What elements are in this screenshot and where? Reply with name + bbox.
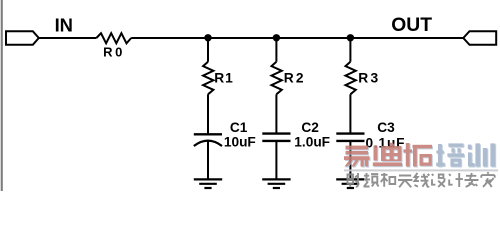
capacitor C2 [262, 134, 290, 141]
wire C2 to ground [275, 141, 277, 180]
wire R1 to C1 [207, 94, 209, 134]
tagline glyph she2 [432, 174, 445, 187]
tagline glyph ji [449, 173, 463, 187]
wire C3 to ground [349, 141, 351, 180]
wire IN to R0 [39, 37, 97, 39]
svg-text:OUT: OUT [391, 15, 432, 36]
ground 1 [194, 179, 222, 188]
capacitor C1 [194, 134, 222, 146]
wire R0 to OUT [131, 37, 463, 39]
svg-text:1.0uF: 1.0uF [294, 135, 330, 150]
resistor R2 [272, 62, 282, 95]
wire node3 down [349, 38, 351, 62]
ground 2 [262, 179, 290, 188]
node junction 3 [347, 34, 354, 41]
wire C1 to ground [207, 141, 209, 179]
svg-text:IN: IN [55, 14, 73, 35]
watermark logo text line 1: brand glyphs [344, 143, 495, 167]
watermark tagline line 2: RF and antenna design expert [348, 172, 495, 187]
tagline glyph jia [481, 172, 494, 187]
wire R3 to C3 [349, 94, 351, 133]
tagline glyph pin [364, 173, 379, 187]
tagline glyph he [381, 173, 395, 187]
svg-text:C3: C3 [377, 120, 395, 135]
capacitor C3 [336, 134, 364, 141]
node junction 1 [204, 34, 211, 41]
port OUT [463, 31, 496, 45]
wire node1 down [207, 38, 209, 62]
glyph di (red) [373, 143, 402, 166]
wire R2 to C2 [275, 94, 277, 133]
glyph tuo (red) [403, 143, 432, 167]
svg-text:C2: C2 [301, 120, 319, 135]
port IN [6, 31, 39, 45]
resistor R0 [96, 33, 131, 43]
logo underline [344, 169, 498, 171]
node junction 2 [273, 34, 280, 41]
glyph xun (blue) [468, 143, 495, 166]
glyph yi (red) [344, 146, 370, 167]
svg-text:R1: R1 [214, 70, 233, 85]
tagline glyph zhuan [465, 173, 479, 187]
tagline glyph tian [398, 176, 412, 188]
glyph pei (blue) [436, 143, 464, 166]
wire node2 down [275, 38, 277, 62]
tagline glyph she [348, 173, 359, 187]
resistor R1 [203, 62, 213, 95]
tagline glyph xian [415, 173, 430, 187]
resistor R3 [346, 62, 356, 95]
svg-text:C1: C1 [230, 120, 248, 135]
ground 3 [336, 179, 364, 188]
svg-text:10uF: 10uF [224, 135, 256, 150]
